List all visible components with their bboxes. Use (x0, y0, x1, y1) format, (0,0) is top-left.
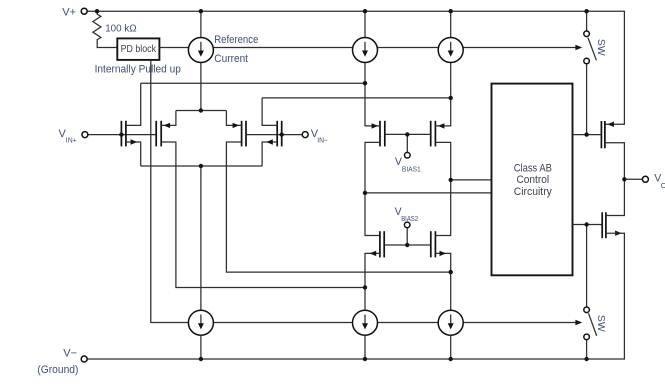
VBIAS2 gate wire (384, 244, 431, 246)
Class AB Control Circuitry box (492, 84, 573, 276)
arrowhead into top SW (575, 45, 582, 51)
svg-text:Reference: Reference (214, 34, 258, 46)
junction ground rail at I5 (363, 357, 367, 361)
transistor Q2 input left inner (156, 111, 365, 288)
bottom current source I5 (353, 310, 378, 359)
wire current source I2 to node A (364, 62, 366, 83)
wire VIN+ input to gates of Q1 Q2 (88, 134, 156, 136)
wire VIN- input to gates of Q3 Q4 (246, 134, 302, 136)
svg-text:PD block: PD block (121, 44, 157, 55)
wire tail node to bottom current source I4 (200, 166, 202, 310)
wire V+ rail into current source I3 (450, 11, 452, 37)
junction VIN- gate (280, 132, 284, 136)
junction ground rail at I6 (449, 357, 453, 361)
svg-text:BIAS2: BIAS2 (401, 214, 418, 223)
node A wire from Q1 drain to current source I2 (141, 82, 365, 84)
VBIAS1 gate wire (385, 133, 431, 135)
svg-text:(Ground): (Ground) (37, 364, 78, 376)
VBIAS1 terminal stub (406, 134, 408, 152)
junction V+ rail at I3 (449, 9, 453, 13)
junction input bottom tail node (199, 164, 203, 168)
wire reference current source to input stage top node (200, 62, 202, 110)
junction V+ rail at top SW (584, 9, 588, 13)
svg-text:Control: Control (516, 174, 549, 186)
node B wire from Q4 drain to current source I3 (262, 97, 451, 99)
output wire to VO terminal (624, 178, 642, 180)
svg-text:SW: SW (595, 39, 606, 56)
svg-text:V+: V+ (62, 7, 76, 19)
bottom current source I4 (188, 310, 213, 359)
VBIAS2 terminal (404, 222, 410, 228)
wire reference bias bus to top SW (213, 47, 576, 49)
bottom current source I6 (438, 310, 463, 359)
wire Class AB box to output PMOS gate (573, 134, 602, 136)
transistor Q4 input right outer (262, 98, 282, 166)
junction Q3 drain to Q8 source (449, 270, 453, 274)
transistor Q7 cascode left lower (365, 231, 384, 310)
svg-text:Class AB: Class AB (514, 162, 552, 174)
junction cascode right node to box (449, 178, 453, 182)
svg-text:SW: SW (595, 315, 606, 332)
resistor R1 100 k (93, 11, 117, 47)
PD block (117, 38, 159, 60)
junction V+ rail at I1 (199, 9, 203, 13)
junction Q2 drain to Q7 source (363, 285, 367, 289)
junction cascode left node to box (363, 191, 367, 195)
wire PD block output down to bottom bias bus (151, 60, 189, 323)
svg-text:Circuitry: Circuitry (514, 186, 553, 198)
VIN+ terminal (82, 132, 88, 138)
junction input top common node (199, 108, 203, 112)
junction V+ rail at resistor (95, 9, 99, 13)
junction V+ rail at I2 (363, 9, 367, 13)
svg-text:Internally Pulled up: Internally Pulled up (95, 64, 181, 76)
V+ terminal (81, 8, 87, 14)
wire V+ rail into reference current source (200, 11, 202, 37)
Class AB Control Circuitry label (514, 162, 553, 198)
VO terminal (642, 176, 648, 182)
svg-text:BIAS1: BIAS1 (402, 164, 421, 173)
output transistor Q10 NMOS (602, 179, 624, 238)
junction ground rail at bottom SW (584, 357, 588, 361)
transistor Q1 input left outer (121, 83, 140, 166)
wire cascode right node into Class AB box (451, 179, 492, 181)
transistor Q5 cascode left upper (365, 83, 385, 235)
junction VBIAS1 gate wire (405, 132, 409, 136)
transistor Q6 cascode right upper (431, 98, 451, 236)
wire Class AB box to output NMOS gate (573, 224, 603, 226)
svg-text:IN−: IN− (317, 135, 328, 144)
current source I3 (438, 38, 463, 63)
arrowhead into bottom SW (575, 320, 582, 326)
junction node A at I2 (363, 81, 367, 85)
VO label (654, 172, 665, 189)
junction output NMOS gate at SW (584, 222, 588, 226)
VBIAS2 label (395, 206, 419, 223)
transistor Q8 cascode right lower (431, 231, 451, 310)
wire cascode left node into Class AB box (365, 192, 492, 194)
wire V+ rail into current source I2 (364, 11, 366, 37)
VIN- terminal (302, 132, 308, 138)
current source I1 reference (188, 38, 213, 63)
junction node B at I3 (449, 96, 453, 100)
wire current source I3 to node B (450, 62, 452, 98)
V- ground rail (87, 233, 624, 359)
V- (Ground) label (37, 347, 78, 376)
svg-text:IN+: IN+ (66, 135, 77, 144)
svg-text:O: O (661, 181, 665, 190)
V+ supply rail (87, 11, 624, 124)
wire PD block to reference current source (159, 47, 188, 49)
svg-text:V−: V− (63, 347, 77, 359)
VIN+ label (59, 128, 77, 145)
current source I2 (353, 38, 378, 63)
Reference Current label (214, 34, 258, 65)
junction VIN+ gate (119, 132, 123, 136)
VBIAS1 terminal (405, 152, 411, 158)
junction output node (622, 177, 626, 181)
VBIAS1 label (395, 156, 421, 173)
wire bottom bias bus to bottom SW (213, 322, 576, 324)
input pair top common node wire (176, 110, 227, 112)
junction VBIAS2 gate wire (405, 243, 409, 247)
transistor Q3 input right inner (226, 111, 450, 273)
output transistor Q9 PMOS (601, 121, 624, 179)
input pair bottom common node wire (141, 165, 262, 167)
VIN- label (311, 128, 328, 145)
junction output PMOS gate at SW (584, 132, 588, 136)
junction ground rail at I4 (199, 357, 203, 361)
VBIAS2 terminal stub (406, 228, 408, 245)
svg-text:Current: Current (214, 53, 248, 65)
bottom SW shutdown switch (584, 225, 597, 360)
top SW shutdown switch (584, 11, 597, 134)
svg-text:100 kΩ: 100 kΩ (105, 23, 137, 34)
V- terminal (81, 356, 87, 362)
